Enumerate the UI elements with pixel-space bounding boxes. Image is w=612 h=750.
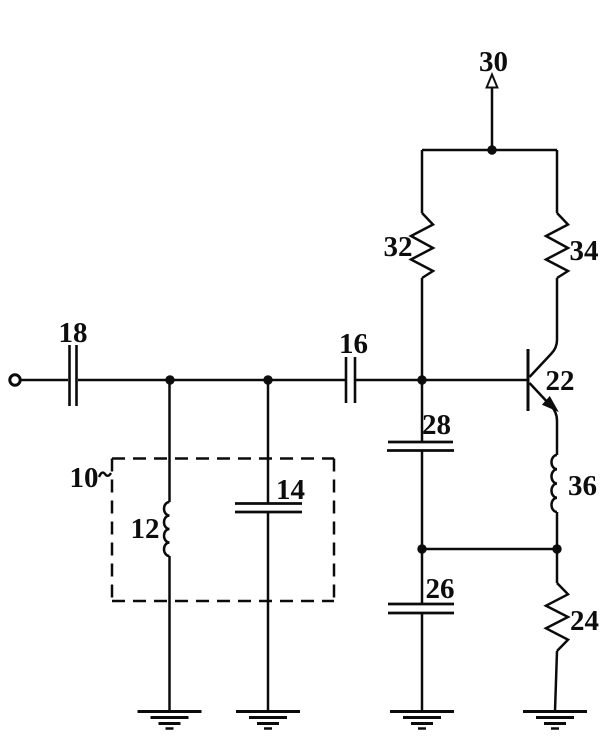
svg-text:16: 16 xyxy=(339,328,368,360)
inductor L12 xyxy=(164,502,170,556)
capacitor C14 xyxy=(235,504,302,513)
svg-text:28: 28 xyxy=(422,409,451,441)
svg-text:26: 26 xyxy=(426,573,455,605)
svg-text:18: 18 xyxy=(59,317,88,349)
wire L36 to mid node xyxy=(556,512,559,549)
wire input to C18 xyxy=(22,379,69,382)
svg-text:10: 10 xyxy=(70,462,99,494)
svg-text:12: 12 xyxy=(131,513,160,545)
mid wire C28/C26 node to emitter branch xyxy=(422,548,557,551)
wire R24 to ground xyxy=(555,651,557,711)
wire C26 to ground xyxy=(421,613,424,711)
wire L12 to ground xyxy=(168,556,171,711)
svg-text:32: 32 xyxy=(384,231,413,263)
inductor L36 xyxy=(551,455,557,512)
capacitor C18 xyxy=(70,345,77,406)
node at tank capacitor tap xyxy=(263,375,272,384)
wire mid node to C26 xyxy=(421,549,424,604)
wire C28 to mid node xyxy=(421,451,424,550)
capacitor C26 xyxy=(388,604,454,613)
svg-text:24: 24 xyxy=(570,605,599,637)
wire rail to R34 xyxy=(556,150,559,213)
wire base node to C28 xyxy=(421,380,424,442)
transistor Q22 collector xyxy=(530,340,558,377)
supply arrow 30 xyxy=(487,75,498,151)
ground (C26) xyxy=(390,712,454,729)
resistor R34 xyxy=(546,213,568,278)
capacitor C28 xyxy=(387,442,454,451)
transistor Q22 emitter arrow xyxy=(544,398,557,410)
wire rail to R32 xyxy=(421,150,424,213)
wire C14 to ground xyxy=(267,512,270,711)
ground (R24) xyxy=(523,712,587,729)
svg-text:14: 14 xyxy=(276,474,305,506)
supply rail wire xyxy=(422,149,557,152)
wire tank node to L12 xyxy=(168,380,171,502)
capacitor C16 xyxy=(346,357,355,403)
wire tank node to C14 xyxy=(267,380,270,504)
resistor R32 xyxy=(411,213,433,278)
transistor Q22 emitter xyxy=(530,383,558,455)
wire R32 to base node xyxy=(421,278,424,380)
ground (C14) xyxy=(236,712,300,729)
node at emitter branch xyxy=(552,544,561,553)
dashed box 10 (tank circuit) xyxy=(112,459,334,602)
ground (L12) xyxy=(138,712,202,729)
svg-text:36: 36 xyxy=(568,470,597,502)
node at supply rail xyxy=(487,145,496,154)
svg-text:22: 22 xyxy=(546,365,575,397)
wire mid node to R24 xyxy=(556,549,559,583)
svg-text:30: 30 xyxy=(479,46,508,78)
wire R34 to collector xyxy=(556,278,559,340)
svg-text:34: 34 xyxy=(570,235,599,267)
resistor R24 xyxy=(546,583,568,651)
wire C16 to base xyxy=(356,379,528,382)
node at bias divider tap xyxy=(417,375,426,384)
input terminal xyxy=(10,375,20,385)
tilde leader from 10 to box xyxy=(99,473,111,477)
node at C26 top xyxy=(417,544,426,553)
node at tank inductor tap xyxy=(165,375,174,384)
transistor Q22 base bar xyxy=(527,349,530,411)
wire C18 to C16 xyxy=(78,379,345,382)
